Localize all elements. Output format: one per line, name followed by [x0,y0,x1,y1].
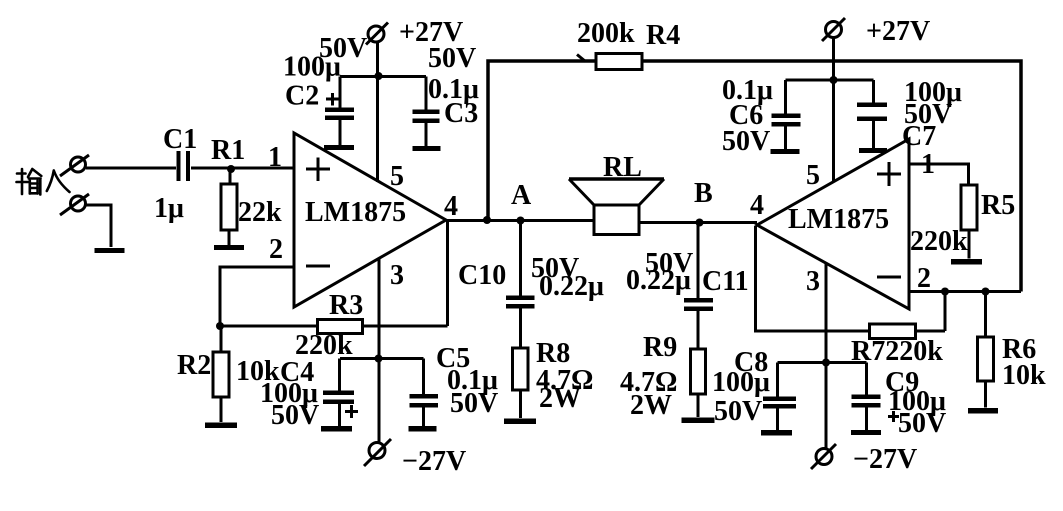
svg-text:5: 5 [806,160,820,191]
svg-text:3: 3 [806,266,820,297]
svg-text:R9: R9 [643,332,677,363]
svg-text:R3: R3 [329,290,363,321]
svg-text:RL: RL [603,152,642,183]
svg-text:200k: 200k [577,18,635,49]
svg-text:100μ: 100μ [283,52,341,83]
svg-text:+27V: +27V [866,16,930,47]
svg-text:LM1875: LM1875 [305,197,406,228]
svg-text:C2: C2 [285,81,319,112]
svg-text:R2: R2 [177,350,211,381]
svg-text:50V: 50V [271,400,319,431]
svg-text:2: 2 [269,234,283,265]
svg-text:2W: 2W [630,390,672,421]
svg-text:50V: 50V [898,408,946,439]
svg-text:10k: 10k [1002,360,1046,391]
svg-text:1: 1 [921,149,935,180]
svg-text:0.22μ: 0.22μ [539,271,604,302]
svg-text:3: 3 [390,260,404,291]
svg-text:A: A [511,180,532,211]
svg-text:50V: 50V [722,126,770,157]
svg-text:50V: 50V [714,396,762,427]
svg-text:0.22μ: 0.22μ [626,265,691,296]
svg-text:2: 2 [917,263,931,294]
svg-text:100μ: 100μ [712,367,770,398]
svg-text:50V: 50V [428,43,476,74]
svg-text:−27V: −27V [402,446,466,477]
svg-text:−27V: −27V [853,444,917,475]
svg-text:R7220k: R7220k [851,336,943,367]
svg-text:C1: C1 [163,124,197,155]
svg-text:LM1875: LM1875 [788,204,889,235]
svg-text:1: 1 [268,142,282,173]
svg-text:50V: 50V [450,388,498,419]
svg-text:R1: R1 [211,135,245,166]
svg-text:C10: C10 [458,260,506,291]
svg-text:1μ: 1μ [154,193,184,224]
svg-text:C11: C11 [702,266,749,297]
svg-text:B: B [694,178,713,209]
svg-text:4: 4 [750,190,764,221]
svg-text:5: 5 [390,161,404,192]
svg-text:2W: 2W [539,383,581,414]
svg-text:R5: R5 [981,190,1015,221]
svg-text:C3: C3 [444,98,478,129]
svg-text:220k: 220k [910,226,968,257]
svg-text:R4: R4 [646,20,680,51]
svg-text:22k: 22k [238,197,282,228]
svg-text:C7: C7 [902,121,936,152]
svg-text:4: 4 [444,191,458,222]
